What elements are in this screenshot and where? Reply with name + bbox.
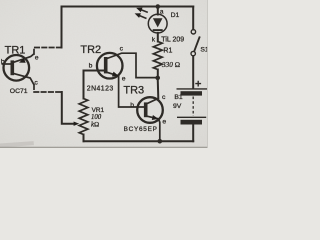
- node: R1 / TR2 / TR3 collector junction: [155, 76, 160, 81]
- transistor TR2 (2N4123, NPN): [97, 53, 157, 107]
- svg-text:S1: S1: [200, 46, 208, 53]
- transistor TR3 (BCY65EP, NPN): [137, 97, 163, 141]
- svg-text:VR1: VR1: [92, 107, 105, 114]
- svg-text:e: e: [162, 119, 166, 126]
- svg-text:c: c: [34, 80, 38, 87]
- svg-text:b: b: [130, 102, 134, 109]
- wire: top supply rail: [62, 6, 194, 8]
- battery B1 (two cells with dashed link): [177, 89, 208, 125]
- svg-text:R1: R1: [163, 47, 172, 54]
- wire: left vertical from top rail: [61, 7, 63, 48]
- svg-text:D1: D1: [171, 12, 180, 19]
- svg-text:kΩ: kΩ: [91, 121, 99, 128]
- svg-text:100: 100: [91, 114, 102, 121]
- wire: LED cathode to R1: [157, 33, 159, 42]
- wire: dashed link TR1 emitter to top rail: [34, 48, 62, 55]
- wire: vertical down to VR1 wiper arrow: [62, 92, 75, 124]
- node: LED anode junction on top rail: [156, 4, 161, 9]
- svg-text:e: e: [122, 75, 126, 82]
- potentiometer VR1: [74, 99, 88, 135]
- svg-text:OC71: OC71: [10, 88, 28, 95]
- wire: R1 bottom to collector junction: [157, 70, 159, 78]
- svg-text:TR1: TR1: [5, 45, 26, 57]
- wire: dashed link TR1 collector toward VR1 wiper: [34, 85, 62, 92]
- bottom-left page shadow: [0, 141, 34, 148]
- svg-text:e: e: [35, 55, 39, 62]
- right page edge shade: [207, 0, 209, 148]
- svg-text:TR3: TR3: [123, 84, 144, 96]
- node: TR3 emitter junction on bottom rail: [158, 139, 163, 144]
- wire: battery negative plate to bottom rail: [192, 125, 194, 142]
- bottom page edge line: [0, 146, 208, 148]
- svg-text:c: c: [162, 94, 166, 101]
- wire: VR1 bottom to bottom rail: [83, 135, 85, 142]
- LED D1 (TiL209): [135, 8, 168, 33]
- transistor TR1 (OC71, PNP photo-transistor): [2, 54, 35, 85]
- svg-text:B1: B1: [174, 94, 183, 101]
- svg-text:a: a: [160, 9, 164, 16]
- svg-text:2N4123: 2N4123: [87, 85, 114, 92]
- svg-text:b: b: [1, 59, 5, 66]
- svg-text:c: c: [120, 45, 124, 52]
- svg-text:9V: 9V: [173, 103, 182, 110]
- wire: LED anode from top rail: [157, 7, 159, 15]
- svg-text:330 Ω: 330 Ω: [161, 61, 180, 69]
- switch S1: [191, 30, 200, 56]
- wire: bottom return rail: [84, 140, 194, 142]
- resistor R1: [153, 42, 162, 70]
- svg-text:TR2: TR2: [80, 44, 101, 56]
- wire: switch S1 to battery positive plate: [192, 56, 194, 88]
- svg-text:b: b: [89, 62, 93, 69]
- battery plus sign: [195, 81, 201, 87]
- wire: top rail down to switch S1: [192, 7, 194, 30]
- svg-text:BCY65EP: BCY65EP: [124, 126, 158, 133]
- paper background: [0, 0, 208, 148]
- wire: TR2 base to VR1 top: [84, 71, 105, 99]
- wire: collector junction down to TR3: [157, 78, 160, 99]
- svg-text:TiL 209: TiL 209: [161, 37, 184, 44]
